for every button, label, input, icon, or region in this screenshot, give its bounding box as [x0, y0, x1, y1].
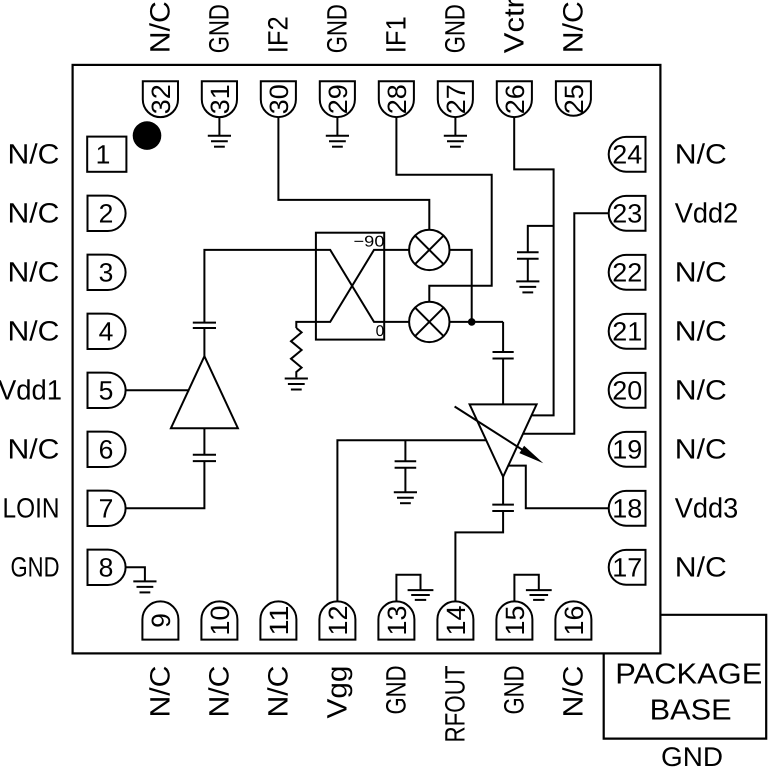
svg-text:N/C: N/C [8, 139, 60, 170]
svg-text:5: 5 [99, 376, 114, 406]
pin 10 [201, 601, 237, 639]
pin 9 [142, 601, 178, 639]
ground (Vctrl bypass) [516, 281, 539, 292]
svg-text:GND: GND [322, 4, 353, 53]
pin 1 marker dot [133, 121, 162, 150]
gain control arrow [455, 407, 544, 464]
capacitor (RF output coupling) [492, 505, 514, 511]
svg-text:2: 2 [99, 199, 114, 229]
wire capacitor to RFOUT pin 14 [455, 511, 503, 601]
pin 3 [88, 255, 126, 290]
pin 24 [609, 137, 646, 172]
pin 15 [496, 601, 532, 639]
resistor R1 (termination) [291, 328, 302, 377]
package base box [604, 615, 767, 739]
wire pin 27 to ground [454, 117, 456, 136]
mixer M1 (I, -90) [409, 230, 449, 270]
package outline [73, 65, 661, 654]
pin 6 [88, 432, 126, 467]
svg-text:IF1: IF1 [381, 16, 412, 53]
op-amp A1 (LO buffer amplifier) [171, 356, 238, 428]
svg-text:10: 10 [205, 606, 235, 636]
svg-text:N/C: N/C [675, 316, 727, 347]
pin 23 [609, 196, 646, 231]
90-degree hybrid U1 [316, 233, 384, 340]
svg-text:Vdd1: Vdd1 [0, 375, 62, 406]
svg-text:23: 23 [612, 199, 642, 229]
pin 16 [555, 601, 591, 639]
op-amp A2 (variable gain RF amplifier) [470, 404, 537, 476]
ground (pin 13) [408, 590, 434, 600]
svg-text:30: 30 [264, 84, 294, 114]
ground (Vgg bypass) [394, 492, 417, 503]
svg-text:N/C: N/C [145, 666, 176, 718]
svg-text:7: 7 [99, 494, 114, 524]
pin 14 [437, 601, 473, 639]
svg-text:20: 20 [612, 376, 642, 406]
svg-text:31: 31 [205, 84, 235, 114]
capacitor (Vgg bypass) [395, 461, 417, 468]
wire Q-mixer output [450, 321, 504, 323]
svg-text:GND: GND [661, 742, 723, 772]
svg-text:N/C: N/C [675, 375, 727, 406]
svg-text:BASE: BASE [650, 695, 732, 727]
wire hybrid isolation port to resistor [296, 322, 316, 328]
mixer M2 (Q, 0) [409, 302, 449, 342]
node junction (mixer outputs) [468, 318, 476, 326]
pin 18 [609, 491, 646, 526]
svg-text:8: 8 [99, 553, 114, 583]
pin 12 [319, 601, 355, 639]
svg-text:IF2: IF2 [263, 16, 294, 53]
pin 4 [88, 314, 126, 349]
ground (pin 15) [526, 590, 552, 600]
svg-text:28: 28 [382, 84, 412, 114]
capacitor (LO input coupling) [193, 455, 216, 461]
pin 17 [609, 550, 646, 585]
ground (termination resistor) [285, 379, 308, 390]
svg-text:26: 26 [500, 84, 530, 114]
svg-text:GND: GND [440, 4, 471, 53]
svg-text:N/C: N/C [675, 139, 727, 170]
wire pin 13 to ground [396, 575, 420, 602]
svg-text:GND: GND [11, 552, 60, 583]
svg-text:16: 16 [559, 606, 589, 636]
wire IF1 pin 28 to Q-mixer [396, 117, 491, 302]
svg-text:Vdd3: Vdd3 [675, 493, 739, 524]
wire pin 31 to ground [218, 117, 220, 136]
svg-text:1: 1 [96, 140, 111, 170]
svg-text:21: 21 [612, 317, 642, 347]
pin 31 [202, 81, 237, 117]
pin 28 [379, 81, 414, 117]
svg-text:N/C: N/C [145, 1, 176, 53]
svg-text:N/C: N/C [558, 666, 589, 718]
capacitor (Vctrl bypass) [517, 252, 539, 259]
svg-text:13: 13 [382, 606, 412, 636]
wire pin 8 to ground [126, 567, 145, 581]
svg-text:Vgg: Vgg [322, 666, 353, 719]
ground (pin 31) [208, 136, 231, 147]
pin 26 [497, 81, 532, 117]
svg-text:N/C: N/C [675, 552, 727, 583]
svg-text:GND: GND [381, 666, 412, 715]
svg-text:0: 0 [376, 323, 385, 340]
svg-text:GND: GND [499, 666, 530, 715]
svg-text:18: 18 [612, 494, 642, 524]
wire LO amp output to coupling capacitor [203, 328, 205, 356]
svg-text:GND: GND [204, 4, 235, 53]
pin 19 [609, 432, 646, 467]
wire combined output to capacitor [502, 322, 504, 352]
pin 2 [88, 196, 126, 231]
ground (pin 29) [326, 136, 349, 147]
svg-text:N/C: N/C [558, 1, 589, 53]
wire I-mixer output [450, 250, 472, 322]
svg-text:RFOUT: RFOUT [440, 666, 471, 743]
pin 11 [260, 601, 296, 639]
svg-text:N/C: N/C [8, 198, 60, 229]
ground (pin 8) [133, 581, 156, 592]
svg-text:24: 24 [612, 140, 642, 170]
svg-text:25: 25 [559, 84, 589, 114]
svg-text:6: 6 [99, 435, 114, 465]
pin 22 [609, 255, 646, 290]
svg-text:22: 22 [612, 258, 642, 288]
svg-text:N/C: N/C [675, 434, 727, 465]
wire LOIN pin 7 to coupling capacitor [126, 461, 205, 508]
svg-text:19: 19 [612, 435, 642, 465]
wire Vdd1 pin 5 to LO amp [126, 389, 190, 391]
svg-text:LOIN: LOIN [3, 493, 60, 524]
svg-text:N/C: N/C [263, 666, 294, 718]
capacitor (LO output coupling) [193, 323, 216, 328]
wire bypass tap [404, 440, 406, 461]
wire Vctrl pin 26 to VGA [514, 117, 553, 415]
svg-text:N/C: N/C [204, 666, 235, 718]
pin 32 [143, 81, 178, 117]
wire Vgg pin 12 to VGA [337, 440, 486, 601]
wire Vdd3 pin 18 to VGA [508, 466, 609, 509]
pin 25 [556, 81, 591, 116]
svg-text:9: 9 [146, 613, 176, 628]
capacitor (VGA input coupling) [493, 352, 514, 359]
wire IF2 pin 30 to I-mixer [278, 117, 429, 230]
svg-text:29: 29 [323, 84, 353, 114]
label PACKAGE BASE [615, 658, 762, 726]
svg-text:3: 3 [99, 258, 114, 288]
pin 5 [88, 373, 126, 408]
svg-text:15: 15 [500, 606, 530, 636]
wire capacitor to LO amp input [203, 428, 205, 455]
wire pin 15 to ground [514, 575, 538, 602]
wire capacitor to ground [404, 468, 406, 492]
wire capacitor to VGA input [502, 359, 504, 405]
pin 20 [609, 373, 646, 408]
svg-text:N/C: N/C [8, 316, 60, 347]
svg-text:−90: −90 [354, 234, 385, 251]
wire Vdd2 pin 23 to VGA [523, 213, 609, 433]
svg-text:32: 32 [146, 84, 176, 114]
wire pin 29 to ground [336, 117, 338, 136]
wire hybrid 0 port to Q-mixer [384, 321, 409, 323]
svg-text:Vdd2: Vdd2 [675, 198, 739, 229]
wire Vctrl bypass tap [528, 226, 554, 252]
svg-text:N/C: N/C [8, 434, 60, 465]
pin 29 [320, 81, 355, 117]
svg-text:4: 4 [99, 317, 114, 347]
svg-text:27: 27 [441, 84, 471, 114]
svg-text:N/C: N/C [675, 257, 727, 288]
wire VGA output to capacitor [502, 477, 504, 505]
pin 30 [261, 81, 296, 117]
svg-text:Vctrl: Vctrl [499, 0, 530, 53]
ground (pin 27) [444, 136, 467, 147]
svg-text:17: 17 [612, 553, 642, 583]
svg-text:12: 12 [323, 606, 353, 636]
wire hybrid -90 port to I-mixer [384, 249, 409, 251]
svg-text:N/C: N/C [8, 257, 60, 288]
pin 8 [88, 550, 126, 585]
svg-text:14: 14 [441, 606, 471, 636]
pin 7 [88, 491, 126, 526]
svg-text:11: 11 [264, 606, 294, 636]
svg-text:PACKAGE: PACKAGE [615, 658, 762, 690]
pin 1 [87, 137, 126, 172]
wire capacitor to ground [527, 259, 529, 282]
pin 27 [438, 81, 473, 117]
pin 13 [378, 601, 414, 639]
pin 21 [609, 314, 646, 349]
wire capacitor to hybrid input [204, 250, 316, 323]
